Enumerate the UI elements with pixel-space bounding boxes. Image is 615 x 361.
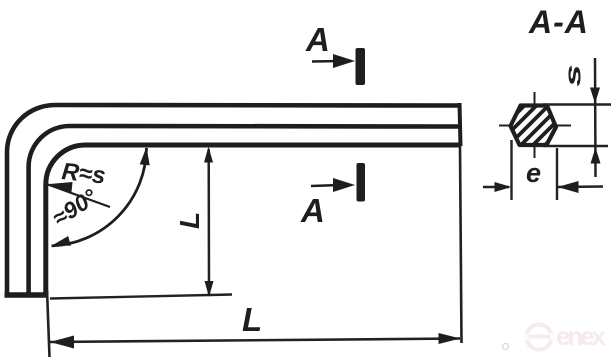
s dimension line bbox=[594, 58, 597, 177]
hex key outer profile line bbox=[7, 105, 460, 297]
hex key inner profile line bbox=[46, 145, 460, 296]
section cut top: arrow bbox=[312, 60, 340, 63]
bottom dimension L right arrowhead bbox=[439, 333, 461, 344]
svg-text:L: L bbox=[242, 301, 262, 338]
section cut bottom: arrow bbox=[311, 185, 340, 186]
hexagon section body bbox=[494, 90, 576, 172]
extension line bottom-left (for dimension L bottom) bbox=[47, 290, 50, 357]
bottom dimension L line bbox=[50, 339, 460, 343]
svg-text:e: e bbox=[526, 158, 541, 188]
hexagon hatching bbox=[494, 90, 576, 172]
bottom dimension L left arrowhead bbox=[50, 336, 74, 349]
hex key middle edge line bbox=[29, 126, 460, 296]
s dimension bottom extension line bbox=[543, 145, 608, 147]
radius leader line bbox=[47, 184, 111, 207]
small faint copyright mark bbox=[503, 344, 509, 350]
section cut top: arrowhead bbox=[333, 54, 355, 68]
svg-text:A: A bbox=[305, 21, 330, 58]
svg-text:s: s bbox=[561, 64, 585, 86]
vertical dimension L bottom arrowhead bbox=[205, 281, 214, 297]
extension line right (for dimension L bottom) bbox=[460, 146, 462, 343]
e dimension right arrowhead bbox=[558, 181, 579, 193]
section cut bottom: arrowhead bbox=[333, 178, 355, 192]
hexagon centerline vertical bbox=[534, 92, 536, 158]
svg-text:R≈s: R≈s bbox=[60, 158, 106, 189]
s dimension top extension line bbox=[543, 103, 611, 105]
vertical dimension L line bbox=[207, 149, 210, 295]
svg-text:A-A: A-A bbox=[528, 4, 589, 40]
enex watermark logo bbox=[525, 321, 607, 351]
angle arc bottom arrowhead bbox=[52, 236, 71, 246]
e dimension left line bbox=[483, 186, 509, 189]
s dimension top arrowhead bbox=[590, 88, 600, 104]
angle arc (approx 90 degrees) bbox=[52, 148, 147, 246]
section cut top: thick bar bbox=[356, 48, 366, 85]
s dimension bottom arrowhead bbox=[591, 148, 601, 164]
e dimension left extension line bbox=[510, 140, 512, 200]
section cut bottom: thick bar bbox=[357, 163, 366, 202]
hex key right end cap bbox=[460, 103, 461, 146]
hex key bottom end cap bbox=[5, 292, 49, 298]
extension line from bottom cap (for vertical dimension L) bbox=[50, 295, 232, 299]
svg-text:enex: enex bbox=[556, 321, 607, 351]
radius leader arrowhead bbox=[44, 182, 73, 192]
svg-text:L: L bbox=[174, 212, 205, 229]
hexagon centerline horizontal bbox=[499, 125, 571, 127]
vertical dimension L top arrowhead bbox=[204, 147, 213, 163]
e dimension left arrowhead bbox=[495, 182, 512, 192]
angle arc top arrowhead bbox=[140, 147, 150, 165]
e dimension right extension line bbox=[556, 148, 558, 200]
svg-text:A: A bbox=[300, 192, 325, 229]
e dimension right line bbox=[557, 185, 603, 188]
